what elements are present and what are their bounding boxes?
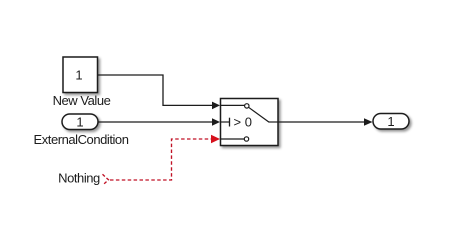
switch top port stub: [221, 104, 245, 106]
switch bottom port stub: [221, 138, 245, 140]
svg-text:1: 1: [387, 114, 394, 129]
wire ExternalCondition to Switch input 2: [98, 121, 213, 123]
inport ExternalCondition: [62, 114, 98, 130]
dangling end chevron at Nothing: [103, 174, 109, 185]
svg-text:1: 1: [76, 115, 83, 130]
switch output stub: [269, 121, 279, 123]
svg-text:New Value: New Value: [53, 93, 111, 108]
outport 1: [373, 114, 409, 130]
wire Constant to Switch input 1: [98, 75, 213, 105]
red arrowhead Switch input 3: [211, 135, 220, 143]
switch top port circle: [245, 104, 249, 108]
switch control threshold tick: [229, 118, 231, 127]
svg-text:> 0: > 0: [234, 114, 252, 129]
switch bottom port circle: [244, 137, 248, 141]
svg-text:ExternalCondition: ExternalCondition: [34, 132, 129, 147]
constant block Constant (New Value): [63, 57, 98, 93]
svg-text:1: 1: [75, 68, 82, 83]
switch block Switch: [221, 99, 279, 146]
wire Switch output to Outport: [278, 121, 364, 123]
switch lever: [249, 107, 269, 122]
switch control port stub: [221, 121, 230, 123]
arrowhead at Outport: [364, 118, 373, 126]
unconnected red dashed wire from Nothing to Switch input 3: [110, 139, 211, 180]
svg-text:Nothing: Nothing: [58, 171, 100, 186]
arrowhead Switch input 2: [212, 118, 220, 126]
arrowhead Switch input 1: [212, 102, 220, 110]
